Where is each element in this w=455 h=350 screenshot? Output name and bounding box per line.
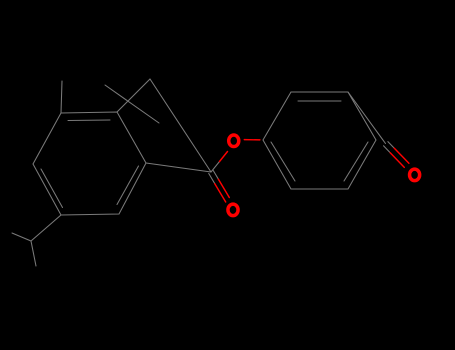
aldehyde O atom label	[410, 169, 420, 181]
vertical bond from ring TL vertex up	[61, 81, 62, 113]
chain apex to carbonyl C (straight two-bond line)	[150, 79, 211, 172]
ester O to carbonyl C bond (red half)	[220, 152, 228, 162]
carbonyl C to ester O bond (black half)	[211, 162, 220, 173]
carbonyl O atom label	[228, 204, 238, 216]
bond ring BL vertex to isopropyl CH	[31, 215, 61, 241]
carbonyl C=O double bond red line (outer)	[215, 184, 226, 202]
left ring inner aromatic line (lower-left edge)	[41, 169, 63, 208]
chain C=C double bond second line	[105, 85, 159, 123]
aldehyde C=O black stub (outer line)	[384, 146, 391, 153]
carbonyl C=O black stub (inner line)	[213, 171, 218, 180]
right benzene ring	[263, 92, 376, 189]
right ring inner aromatic line (lower-right edge)	[344, 142, 368, 181]
left ring inner aromatic line (top edge)	[68, 119, 110, 122]
isopropyl methyl stub up-left	[12, 233, 31, 241]
right ring inner aromatic line (top edge)	[298, 100, 341, 102]
aldehyde C=O black stub (inner line)	[388, 142, 394, 149]
ester O to right ring bond (red)	[244, 139, 260, 141]
right ring inner aromatic line (lower-left edge)	[271, 142, 295, 181]
ester O atom label	[229, 135, 239, 147]
carbonyl C=O black stub (outer line)	[209, 173, 215, 183]
isopropyl methyl stub down	[31, 241, 36, 266]
aldehyde C=O double bond red line (outer)	[390, 153, 404, 168]
left benzene ring	[33, 112, 146, 215]
aldehyde C=O double bond red line (inner)	[394, 148, 409, 163]
bond ring TR vertex to aldehyde C	[348, 92, 386, 144]
bond ring R vertex to carbonyl C	[146, 163, 211, 172]
bond ring TR vertex to chain apex	[117, 79, 150, 112]
carbonyl C=O double bond red line (inner)	[218, 179, 229, 197]
left ring inner aromatic line (lower-right edge)	[117, 166, 139, 205]
